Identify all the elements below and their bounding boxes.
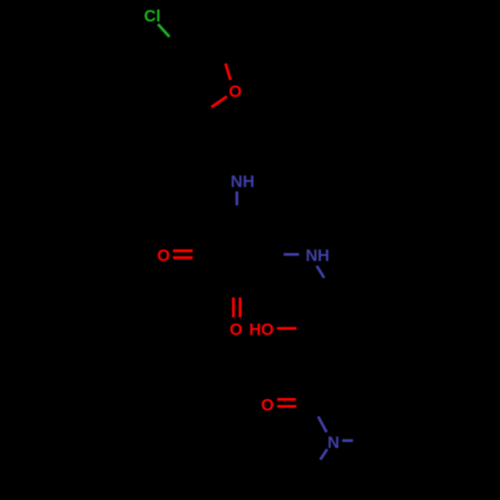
bond O1-C2 red half (furan lower): [211, 96, 227, 107]
bond Cring-N2 blue half (horizontal): [284, 253, 299, 256]
double bond C=O5 red half line 1: [277, 398, 296, 401]
bond C(=O)-N3 blue half (diagonal): [318, 417, 326, 433]
svg-text:HO: HO: [249, 321, 274, 339]
double bond C=O3 red half line 2 (vertical right): [239, 298, 242, 318]
bond C4-Cl green half: [158, 24, 169, 37]
bond N2-CH2 blue half (diagonal): [317, 266, 325, 278]
double bond C=O2 red half line 1: [173, 249, 193, 252]
bond N1-Cring blue half (vertical): [235, 191, 238, 205]
bond O4-C red half (horizontal): [277, 327, 296, 330]
svg-text:NH: NH: [231, 173, 255, 191]
svg-text:O: O: [157, 247, 170, 265]
bond C5-O1 red half (furan upper): [226, 64, 231, 81]
svg-text:O: O: [261, 396, 274, 414]
double bond C=O5 red half line 2: [277, 405, 296, 408]
double bond C=O2 red half line 2: [173, 256, 193, 259]
svg-text:O: O: [230, 321, 243, 339]
bond N3-CH3 blue half (horizontal right): [342, 439, 353, 442]
svg-text:Cl: Cl: [144, 7, 161, 25]
double bond C=O3 red half line 1 (vertical left): [232, 298, 235, 318]
svg-text:NH: NH: [306, 247, 330, 265]
svg-text:N: N: [328, 434, 340, 452]
svg-text:O: O: [229, 83, 242, 101]
bond N3-CH3 blue half (down-left): [320, 449, 327, 459]
